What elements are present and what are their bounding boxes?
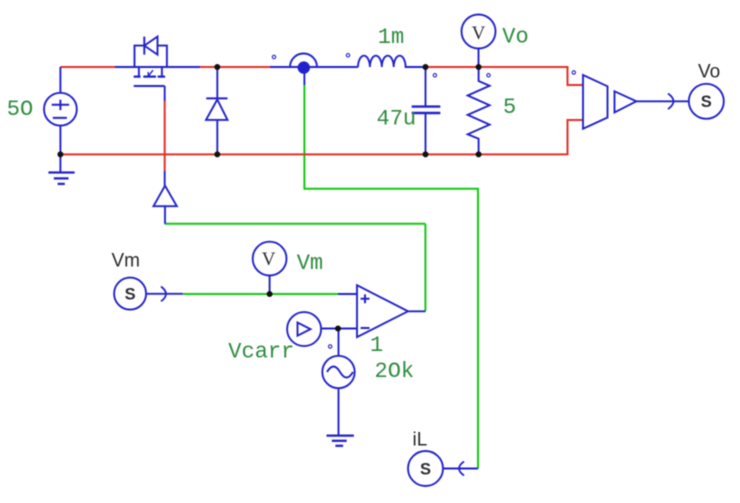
svg-text:5: 5 [503, 95, 516, 120]
svg-text:Vo: Vo [502, 25, 528, 50]
svg-text:Vm: Vm [297, 251, 323, 276]
svg-text:S: S [420, 460, 431, 478]
svg-text:2Ok: 2Ok [375, 359, 415, 384]
svg-text:Vo: Vo [698, 62, 720, 83]
svg-text:S: S [701, 93, 712, 111]
svg-text:1: 1 [370, 333, 383, 358]
svg-text:iL: iL [413, 430, 428, 451]
svg-text:V: V [472, 23, 486, 44]
svg-text:V: V [262, 249, 276, 270]
svg-text:Vm: Vm [112, 250, 141, 271]
svg-text:1m: 1m [378, 25, 404, 50]
svg-text:5O: 5O [7, 97, 33, 122]
svg-text:47u: 47u [377, 107, 417, 132]
svg-text:S: S [125, 285, 136, 303]
svg-text:Vcarr: Vcarr [228, 340, 294, 365]
